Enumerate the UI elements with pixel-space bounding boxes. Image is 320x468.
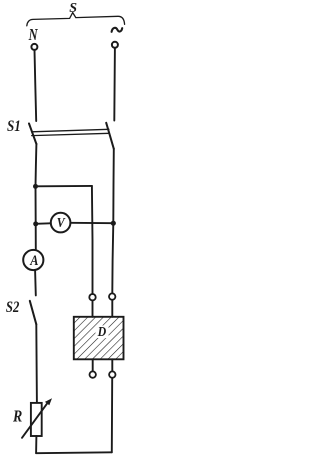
svg-text:A: A <box>29 252 38 268</box>
junction node V left <box>33 221 38 226</box>
switch S1 linkage <box>32 129 110 135</box>
wire S2 to R <box>35 324 38 402</box>
terminal D top-right <box>109 293 115 299</box>
wire D bottom-left lead <box>92 359 94 371</box>
terminal ~ <box>112 42 118 48</box>
terminal D top-left <box>89 294 95 300</box>
voltmeter V <box>51 213 71 233</box>
resistor R arrow <box>22 402 48 438</box>
wire D top-right lead <box>111 300 113 317</box>
junction node branch <box>33 184 38 189</box>
terminal N <box>31 44 37 50</box>
svg-text:N: N <box>28 26 39 44</box>
switch S1 pole 1 blade <box>29 124 36 145</box>
wire D bottom-right lead <box>111 359 113 371</box>
ammeter A <box>23 250 43 270</box>
resistor R body <box>31 403 42 436</box>
label ~ <box>112 28 123 32</box>
switch S1 pole 2 blade <box>106 123 114 149</box>
svg-text:S2: S2 <box>6 299 19 316</box>
wire A to S2 <box>34 270 37 295</box>
wire left rail V node to A <box>35 224 37 250</box>
device D body <box>74 317 124 360</box>
wire right rail S1 to node <box>112 149 115 223</box>
switch S2 blade <box>30 301 37 325</box>
svg-text:R: R <box>12 407 22 426</box>
terminal D bottom-left <box>90 371 96 377</box>
svg-text:S1: S1 <box>7 118 21 135</box>
svg-text:V: V <box>57 214 66 230</box>
svg-text:D: D <box>97 323 107 339</box>
wire V left lead <box>36 222 50 225</box>
wire right rail node to D top-right <box>112 223 113 293</box>
junction node V right <box>111 221 116 226</box>
brace for S <box>27 13 125 26</box>
wire R to bottom corner <box>35 436 37 453</box>
wire bottom right vertical <box>111 378 113 452</box>
wire bottom horizontal <box>36 451 112 454</box>
wire branch horizontal <box>36 185 92 187</box>
wire ~ rail top <box>113 48 116 120</box>
wire branch vertical to D top-left <box>91 186 94 294</box>
wire left rail junction to V node <box>35 186 37 224</box>
label D <box>96 323 109 339</box>
wire left rail S1 to junction <box>35 144 38 187</box>
wire N rail top <box>35 50 37 121</box>
terminal D bottom-right <box>109 371 115 377</box>
wire D top-left lead <box>92 301 94 317</box>
wire V right lead <box>71 222 114 224</box>
